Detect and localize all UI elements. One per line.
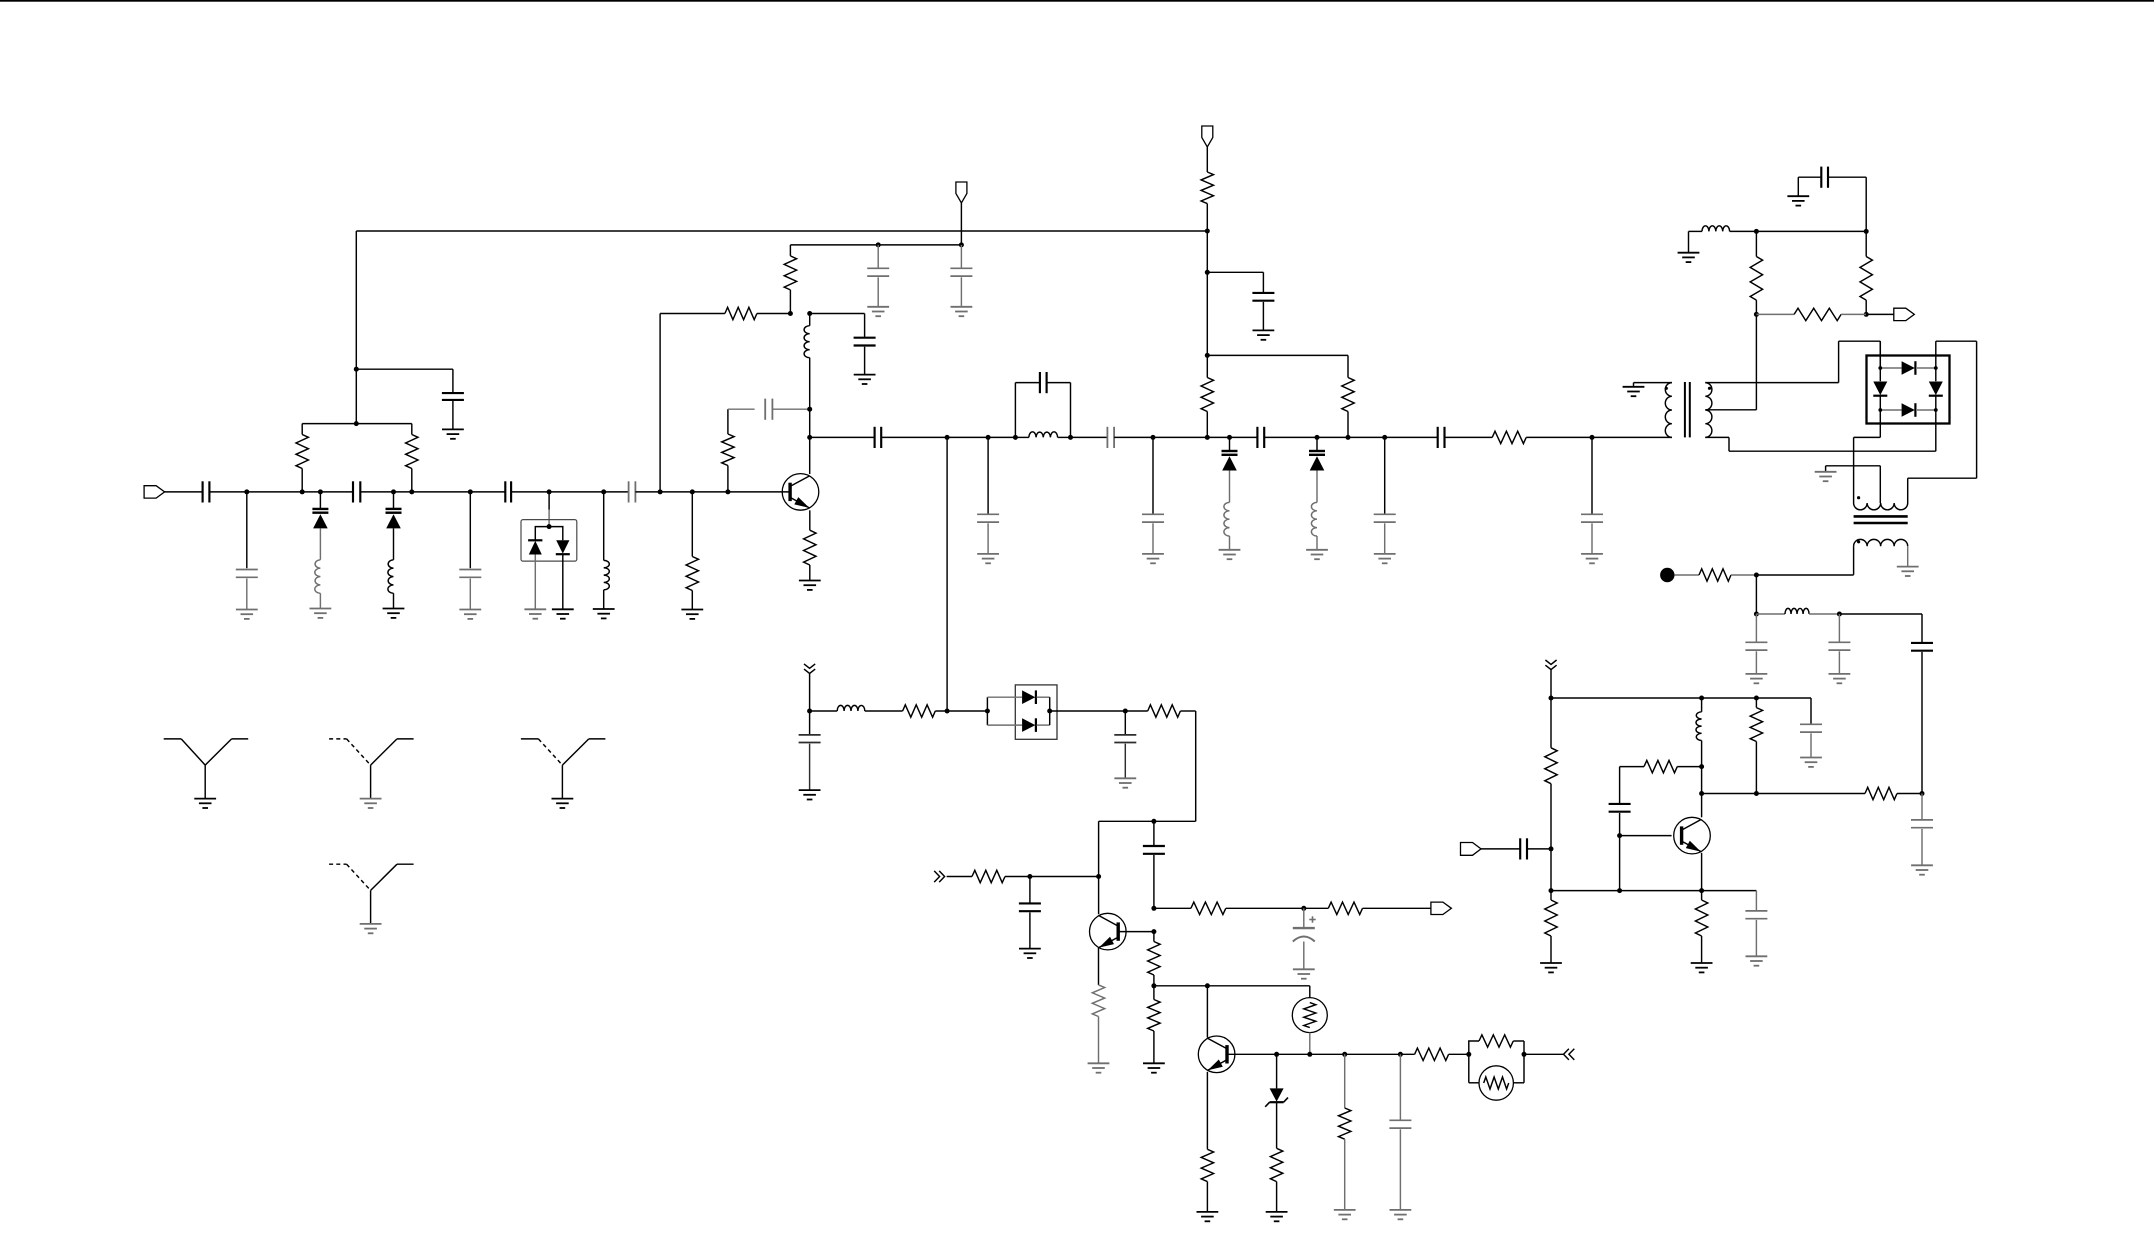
- output port P4: [1894, 308, 1915, 320]
- resistor R12: [903, 705, 988, 717]
- node N4 junction: [391, 489, 396, 494]
- resistor R19: [1304, 902, 1431, 914]
- ground for T2 secondary: [1897, 567, 1919, 576]
- node N57 junction: [1617, 833, 1622, 838]
- capacitor C6: [505, 481, 628, 502]
- ground for L2: [383, 609, 405, 618]
- wire tp down: [1755, 575, 1757, 614]
- inductor L7: [1311, 502, 1317, 549]
- resistor R7 emitter: [804, 510, 816, 580]
- node N20 junction: [986, 435, 991, 440]
- node N10 junction: [658, 489, 663, 494]
- wire LO vertical: [946, 437, 948, 711]
- node N63 junction: [1754, 573, 1759, 578]
- transistor Q3: [1674, 817, 1711, 854]
- node N7 junction: [468, 489, 473, 494]
- node N68 junction: [1754, 312, 1759, 317]
- transformer T2: [1854, 478, 1908, 575]
- test point TP1: [1660, 568, 1674, 582]
- ground for L11: [1678, 253, 1700, 262]
- ground for R26: [1540, 963, 1562, 972]
- node N61 junction: [1920, 791, 1925, 796]
- transistor Q4: [1198, 1036, 1235, 1073]
- inductor L4 collector: [804, 314, 810, 410]
- ground for C25: [1019, 949, 1041, 958]
- wire bias rail: [302, 423, 412, 425]
- capacitor C29: [1520, 838, 1551, 859]
- node N25 junction: [1227, 435, 1232, 440]
- wire flag rail down: [1206, 231, 1208, 355]
- varactor D4: [1222, 437, 1238, 502]
- capacitor C5 shunt: [459, 492, 481, 610]
- node N33 junction: [807, 709, 812, 714]
- node N52 junction: [1699, 696, 1704, 701]
- capacitor C4 AGC: [442, 393, 464, 429]
- node N29 junction: [1590, 435, 1595, 440]
- bridge rectifier D8: [1867, 356, 1950, 424]
- node N11 junction: [690, 489, 695, 494]
- resistor R20: [1270, 1148, 1282, 1212]
- capacitor C13 shunt: [977, 437, 999, 554]
- node N37 junction: [1151, 819, 1156, 824]
- wire emitter line: [1551, 890, 1756, 892]
- spare symbol Y1: [164, 739, 249, 808]
- capacitor C23 shunt: [1114, 711, 1136, 778]
- ground for C22: [799, 790, 821, 799]
- resistor R27 feedback: [1620, 760, 1702, 772]
- capacitor C25 shunt: [1019, 877, 1041, 949]
- node N35 junction: [985, 709, 990, 714]
- resistor R3 shunt: [686, 492, 698, 610]
- transistor Q1: [782, 474, 819, 511]
- zener diode D7: [1265, 1054, 1288, 1148]
- node N67 junction: [1864, 229, 1869, 234]
- inductor L11: [1689, 226, 1757, 253]
- ground for R22: [1334, 1210, 1356, 1219]
- capacitor C36: [1798, 167, 1866, 232]
- wire mixer out: [1050, 710, 1126, 712]
- wire to IF amp: [1099, 711, 1196, 821]
- resistor R28: [1750, 698, 1762, 794]
- input port P1: [144, 486, 203, 498]
- wire audio out: [1524, 1053, 1564, 1055]
- resistor R17: [1148, 986, 1160, 1064]
- ground for C23: [1114, 778, 1136, 787]
- node N44 junction: [1205, 983, 1210, 988]
- input port P3: [1461, 843, 1521, 856]
- node N45 junction: [1274, 1052, 1279, 1057]
- node N30 junction: [1205, 229, 1210, 234]
- resistor R24 parallel: [1469, 1035, 1524, 1083]
- ground for C5: [459, 610, 481, 619]
- inductor L6: [1224, 502, 1230, 549]
- node N60 junction: [1754, 791, 1759, 796]
- wire top net: [356, 231, 1207, 369]
- resistor R6: [784, 245, 796, 314]
- wire filter top: [1839, 614, 1922, 642]
- capacitor C7: [629, 481, 789, 502]
- page top border: [0, 0, 2154, 2]
- ground for T2 tap: [1815, 472, 1837, 481]
- ground for C13: [977, 554, 999, 563]
- ground for L1: [310, 609, 332, 618]
- node N43 junction: [1301, 906, 1306, 911]
- wire to T2 secondary: [1756, 574, 1853, 576]
- node N32 junction: [1205, 353, 1210, 358]
- node N24 junction: [1205, 435, 1210, 440]
- node N47 junction: [1342, 1052, 1347, 1057]
- node N56 junction: [1617, 888, 1622, 893]
- resistor R2: [406, 424, 418, 492]
- node N15 junction: [959, 242, 964, 247]
- wire to R11: [1207, 354, 1348, 356]
- wire rf line 1: [810, 436, 874, 438]
- node N31 junction: [1205, 270, 1210, 275]
- resistor R9: [1201, 172, 1213, 231]
- node N9 junction: [601, 489, 606, 494]
- diode pair D6 mixer: [987, 685, 1057, 739]
- capacitor C18 shunt: [1374, 437, 1396, 554]
- wire main line segment 1: [247, 491, 353, 493]
- ground for R20: [1266, 1212, 1288, 1221]
- wire AGC feed: [356, 369, 453, 392]
- wire Q4 base: [1227, 1053, 1277, 1055]
- wire bias rail 2: [660, 313, 725, 315]
- wire vcc drop: [1550, 670, 1552, 698]
- node N42 junction: [1151, 983, 1156, 988]
- wire Q2 base: [1118, 931, 1154, 933]
- ground for C20: [1581, 554, 1603, 563]
- node N66 junction: [1754, 229, 1759, 234]
- wire T1 sec top: [1705, 341, 1880, 382]
- resistor R21 emitter: [1201, 1072, 1213, 1182]
- resistor R13: [1125, 705, 1195, 717]
- capacitor C17: [1257, 427, 1437, 448]
- ground for C2: [236, 610, 258, 619]
- resistor R26: [1545, 891, 1557, 963]
- ground for L3: [593, 609, 615, 618]
- ground for D3 right: [552, 609, 574, 618]
- wire T2 center tap: [1826, 466, 1881, 503]
- wire Q3 collector: [1701, 767, 1703, 818]
- node N13 junction: [788, 311, 793, 316]
- node N14 junction: [876, 242, 881, 247]
- thermistor RT2: [1479, 1066, 1513, 1100]
- node N65 junction: [1837, 612, 1842, 617]
- resistor R10: [1201, 355, 1213, 437]
- node N58 junction: [1699, 764, 1704, 769]
- resistor R30 emitter: [1695, 891, 1707, 963]
- wire out rail: [1756, 230, 1866, 232]
- ground for C28: [1800, 758, 1822, 767]
- spare symbol Y2: [329, 739, 414, 808]
- capacitor C28 bypass: [1800, 698, 1822, 758]
- wire to bias rail 2: [659, 314, 661, 492]
- wire vcc rail 2: [1551, 697, 1811, 699]
- inductor L10: [1756, 608, 1839, 614]
- wire base divider: [1550, 849, 1552, 891]
- ground for R3: [681, 610, 703, 619]
- capacitor C22 shunt: [799, 711, 821, 790]
- capacitor C12: [875, 427, 1016, 448]
- node N48 junction: [1398, 1052, 1403, 1057]
- capacitor C31: [1609, 767, 1631, 812]
- power flag VCC1: [956, 182, 967, 245]
- ground for R17: [1143, 1063, 1165, 1072]
- ground for R15: [1088, 1063, 1110, 1072]
- inductor L2: [388, 560, 394, 609]
- resistor R11: [1342, 355, 1354, 437]
- resistor R16: [1148, 932, 1160, 986]
- inductor L3 shunt: [604, 492, 610, 609]
- capacitor C34 series: [1911, 643, 1933, 794]
- wire bridge out2: [1854, 410, 1881, 503]
- wire bias to decoupling: [810, 314, 865, 337]
- wire audio line: [1277, 1053, 1415, 1055]
- inductor L1: [315, 560, 321, 609]
- ground for T1 primary: [1623, 387, 1645, 396]
- ground for C9: [867, 307, 889, 316]
- inductor L8: [810, 705, 903, 711]
- capacitor C33 shunt: [1828, 614, 1850, 674]
- wire base chain: [1619, 813, 1621, 891]
- ground for C35: [1911, 865, 1933, 874]
- ground for C36: [1787, 196, 1809, 205]
- node N46 junction: [1307, 1052, 1312, 1057]
- resistor R31: [1675, 569, 1757, 581]
- node N1 junction: [244, 489, 249, 494]
- wire collector: [809, 409, 811, 474]
- ground for C16: [1142, 554, 1164, 563]
- resistor R1: [296, 424, 308, 492]
- node N39 junction: [1096, 874, 1101, 879]
- wire Q2 collector 2: [1098, 877, 1100, 915]
- chevron NC4: [1545, 660, 1556, 670]
- node N54 junction: [1549, 846, 1554, 851]
- inductor L5 tank: [1015, 432, 1070, 438]
- capacitor C14 tank: [1015, 372, 1070, 437]
- ground for C27: [1390, 1210, 1412, 1219]
- ground for C4: [442, 429, 464, 438]
- capacitor C24: [1143, 821, 1165, 908]
- chevron NC1: [804, 664, 815, 674]
- resistor R15 emitter: [1092, 948, 1104, 1063]
- resistor R29: [1865, 787, 1922, 799]
- node N19 junction: [945, 435, 950, 440]
- resistor R34: [1756, 308, 1866, 320]
- wire bridge out1: [1908, 341, 1977, 478]
- node N5 junction: [409, 489, 414, 494]
- resistor R4 feedback: [722, 409, 734, 492]
- node N22 junction: [1068, 435, 1073, 440]
- resistor R33: [1860, 231, 1872, 314]
- node N64 junction: [1754, 612, 1759, 617]
- node N59 junction: [1699, 791, 1704, 796]
- capacitor C2 shunt: [236, 492, 258, 610]
- node N23 junction: [1151, 435, 1156, 440]
- wire T1 center tap: [1705, 314, 1756, 409]
- varactor D5: [1309, 437, 1325, 502]
- wire IF input: [1030, 876, 1099, 878]
- varactor D1: [312, 492, 328, 560]
- ground for Q1 emitter: [799, 581, 821, 590]
- ground for L6: [1219, 550, 1241, 559]
- node N41 junction: [1151, 929, 1156, 934]
- resistor R14: [947, 870, 1030, 882]
- node N53 junction: [1754, 696, 1759, 701]
- wire Q3 base: [1620, 835, 1672, 837]
- varactor D2: [386, 492, 402, 560]
- node N36 junction: [1123, 709, 1128, 714]
- ground for C32: [1746, 674, 1768, 683]
- node N62 junction: [1699, 888, 1704, 893]
- capacitor C21: [1252, 293, 1274, 331]
- thermistor RT1: [1292, 986, 1327, 1055]
- capacitor C9 bypass: [867, 245, 889, 307]
- wire vcc rail: [790, 244, 961, 246]
- wire if out line: [1702, 793, 1865, 795]
- capacitor C35 shunt: [1911, 794, 1933, 866]
- node N40 junction: [1151, 906, 1156, 911]
- node N2 junction: [300, 489, 305, 494]
- spare symbol Y3: [521, 739, 606, 808]
- node N6 junction: [354, 367, 359, 372]
- capacitor C32 shunt: [1745, 614, 1767, 674]
- wire to C21: [1207, 272, 1263, 292]
- wire Q3 emitter: [1701, 853, 1703, 891]
- resistor R32: [1750, 231, 1762, 314]
- capacitor C11: [854, 338, 876, 375]
- wire Q2 collector: [1098, 821, 1100, 876]
- chevron NC2: [934, 871, 944, 882]
- capacitor C8 feedback: [728, 399, 810, 420]
- node N55 junction: [1549, 888, 1554, 893]
- ground for L7: [1306, 550, 1328, 559]
- resistor R5: [725, 307, 791, 319]
- resistor R8: [1492, 431, 1672, 443]
- wire to port: [1866, 313, 1894, 315]
- ground for C18: [1374, 554, 1396, 563]
- capacitor C1: [203, 481, 247, 502]
- capacitor C30 shunt: [1745, 891, 1767, 957]
- resistor R23: [1415, 1048, 1469, 1060]
- capacitor C10 bypass: [950, 245, 972, 307]
- capacitor C27 shunt: [1389, 1054, 1411, 1210]
- wire rf line 2: [1071, 436, 1108, 438]
- transformer T1: [1634, 382, 1712, 437]
- ground for R21: [1197, 1212, 1219, 1221]
- capacitor C26 polarized: [1293, 908, 1316, 969]
- node N38 junction: [1027, 874, 1032, 879]
- node N26 junction: [1315, 435, 1320, 440]
- capacitor C15: [1107, 427, 1257, 448]
- capacitor C16 shunt: [1142, 437, 1164, 554]
- node N34 junction: [945, 709, 950, 714]
- chevron NC3: [1564, 1049, 1575, 1060]
- node N16 junction: [807, 311, 812, 316]
- resistor R18: [1154, 902, 1304, 914]
- output port P2 AGC: [1431, 902, 1452, 914]
- ground for C33: [1829, 674, 1851, 683]
- node bias rail junction: [354, 421, 359, 426]
- transistor Q2: [1090, 913, 1127, 950]
- capacitor C3: [353, 481, 505, 502]
- ground for D3 left: [524, 609, 546, 618]
- ground for C11: [854, 375, 876, 384]
- ground for C10: [951, 307, 973, 316]
- wire Q4 collector: [1206, 986, 1208, 1038]
- node N18 junction: [807, 435, 812, 440]
- wire det line: [1154, 985, 1310, 987]
- ground for C30: [1746, 956, 1768, 965]
- power flag VCC2: [1202, 126, 1213, 172]
- wire osc input: [809, 674, 811, 712]
- node N51 junction: [1549, 696, 1554, 701]
- ground for R30: [1691, 963, 1713, 972]
- wire bias to top: [355, 369, 357, 423]
- node N12 junction: [725, 489, 730, 494]
- node N17 junction: [807, 407, 812, 412]
- diode pair D3: [521, 492, 577, 609]
- node N69 junction: [1864, 312, 1869, 317]
- node N28 junction: [1382, 435, 1387, 440]
- node N27 junction: [1346, 435, 1351, 440]
- node N8 junction: [547, 489, 552, 494]
- node N49 junction: [1466, 1052, 1471, 1057]
- resistor R25: [1545, 698, 1557, 849]
- node N21 junction: [1013, 435, 1018, 440]
- spare symbol Y4: [329, 864, 414, 933]
- capacitor C20 shunt: [1581, 437, 1603, 554]
- wire R21 bottom: [1206, 1182, 1208, 1212]
- capacitor C19: [1438, 427, 1493, 448]
- wire T1 sec bottom: [1705, 410, 1936, 451]
- ground for C26: [1293, 969, 1315, 978]
- node N50 junction: [1522, 1052, 1527, 1057]
- inductor L9 collector: [1696, 698, 1702, 767]
- resistor R22: [1339, 1054, 1351, 1210]
- node N3 junction: [318, 489, 323, 494]
- wire bridge in1: [1879, 341, 1881, 368]
- ground for C21: [1253, 330, 1275, 339]
